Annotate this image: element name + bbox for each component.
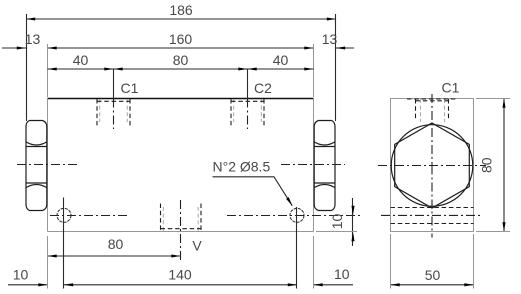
extension line body right bottom bbox=[313, 236, 315, 289]
svg-text:80: 80 bbox=[173, 52, 189, 68]
svg-text:10: 10 bbox=[329, 214, 345, 230]
extension line body left bottom bbox=[47, 236, 49, 289]
svg-text:80: 80 bbox=[479, 157, 495, 173]
svg-text:40: 40 bbox=[273, 52, 289, 68]
centerline left plug bbox=[17, 164, 80, 166]
svg-text:10: 10 bbox=[334, 266, 350, 282]
dimension 13 left bbox=[2, 31, 40, 50]
hex plug right (side profile) bbox=[314, 121, 335, 211]
extension line side top bbox=[476, 98, 510, 100]
svg-text:186: 186 bbox=[169, 2, 193, 18]
svg-text:13: 13 bbox=[25, 31, 41, 47]
port C1 side view (hidden lines) bbox=[407, 99, 457, 122]
side view vertical centerline upper (port axis) bbox=[431, 94, 433, 166]
extension line side left bottom bbox=[390, 234, 392, 289]
dimension 50 bbox=[391, 267, 474, 286]
dimension 160 bbox=[48, 31, 314, 50]
extension line left hex tip bbox=[26, 14, 28, 121]
dimension 40 right bbox=[248, 52, 314, 71]
hole right centerline bbox=[227, 215, 360, 217]
side view vertical centerline lower bbox=[431, 166, 433, 238]
port C2 (front, hidden lines) bbox=[231, 99, 264, 130]
svg-text:40: 40 bbox=[73, 52, 89, 68]
dimension 80 bottom bbox=[48, 236, 181, 258]
extension line port C2 bbox=[247, 69, 249, 99]
extension line side bottom bbox=[476, 231, 510, 233]
port V (front bottom, hidden lines) bbox=[161, 200, 202, 260]
extension line port C1 bbox=[113, 69, 115, 99]
dimension 186 bbox=[26, 2, 336, 21]
dimension 140 bbox=[64, 267, 297, 287]
dimension 13 right bbox=[322, 31, 354, 50]
port C1 (front, hidden lines) bbox=[97, 99, 130, 130]
dimension 80 side bbox=[479, 99, 506, 232]
extension line side right bottom bbox=[473, 234, 475, 289]
side view horizontal centerline bbox=[378, 165, 486, 167]
mounting hole right bbox=[290, 208, 304, 222]
front view body outline bbox=[48, 99, 314, 232]
hole right extension line bbox=[296, 207, 298, 289]
svg-text:N°2 Ø8.5: N°2 Ø8.5 bbox=[213, 159, 271, 175]
side view V passage hidden lines bbox=[381, 208, 483, 224]
svg-text:140: 140 bbox=[168, 267, 192, 283]
svg-text:C2: C2 bbox=[254, 80, 272, 96]
svg-text:10: 10 bbox=[13, 267, 29, 283]
svg-text:13: 13 bbox=[322, 31, 338, 47]
dimension 10 bottom right bbox=[314, 266, 354, 286]
svg-text:C1: C1 bbox=[121, 80, 139, 96]
extension line bottom edge right bbox=[316, 231, 357, 233]
svg-text:50: 50 bbox=[425, 267, 441, 283]
svg-text:V: V bbox=[192, 238, 202, 254]
dimension 10 vertical (hole height) bbox=[329, 198, 355, 246]
side view hex plug head-on bbox=[395, 123, 470, 208]
svg-text:C1: C1 bbox=[442, 80, 460, 96]
hole left centerline bbox=[50, 215, 129, 217]
dimension 80 top bbox=[114, 52, 248, 71]
extension line right hex tip bbox=[335, 14, 337, 121]
dimension 40 left bbox=[48, 52, 314, 71]
hex plug left (side profile) bbox=[26, 121, 47, 211]
side view plug circle bbox=[391, 125, 473, 207]
hole left extension line bbox=[63, 198, 65, 289]
note N°2 Ø8.5 with leader bbox=[213, 159, 294, 207]
side view body outline bbox=[391, 99, 474, 232]
extension line body right top bbox=[313, 44, 315, 97]
svg-text:160: 160 bbox=[169, 31, 193, 47]
dimension 10 bottom left bbox=[8, 267, 48, 287]
mounting hole left bbox=[57, 208, 71, 222]
svg-text:80: 80 bbox=[108, 236, 124, 252]
extension line body left top bbox=[47, 44, 49, 97]
centerline right plug bbox=[281, 164, 345, 166]
